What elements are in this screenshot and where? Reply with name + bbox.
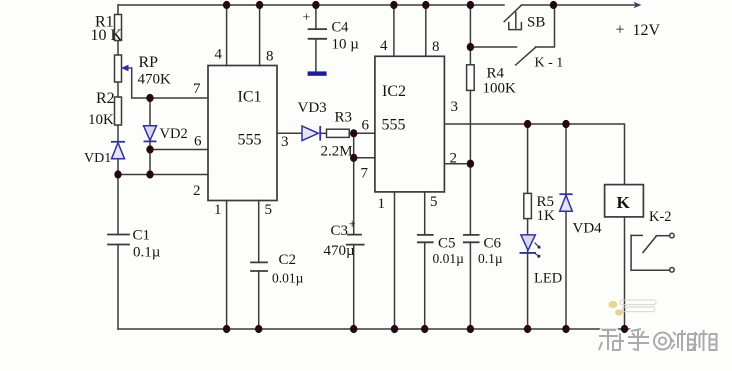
svg-text:100K: 100K — [483, 81, 517, 97]
svg-text:RP: RP — [139, 54, 159, 71]
svg-text:1: 1 — [378, 196, 386, 212]
svg-text:C2: C2 — [279, 252, 297, 268]
svg-text:470µ: 470µ — [324, 243, 356, 259]
svg-text:2: 2 — [450, 151, 458, 167]
svg-text:3: 3 — [451, 99, 459, 115]
svg-text:+: + — [349, 216, 356, 231]
svg-text:2.2M: 2.2M — [321, 144, 353, 160]
svg-text:1K: 1K — [537, 208, 556, 224]
svg-text:10 K: 10 K — [91, 27, 123, 44]
svg-text:470K: 470K — [138, 72, 172, 88]
svg-text:K: K — [617, 193, 631, 212]
svg-text:6: 6 — [194, 134, 202, 150]
svg-text:10K: 10K — [88, 112, 114, 128]
svg-text:K - 1: K - 1 — [535, 56, 564, 71]
svg-text:1: 1 — [214, 202, 222, 218]
svg-text:555: 555 — [238, 132, 262, 149]
svg-text:0.1µ: 0.1µ — [133, 245, 161, 261]
svg-text:VD2: VD2 — [160, 126, 188, 142]
svg-text:4: 4 — [380, 38, 388, 54]
svg-text:C6: C6 — [484, 236, 502, 252]
svg-text:VD1: VD1 — [84, 151, 111, 166]
svg-text:K-2: K-2 — [649, 209, 672, 225]
svg-text:7: 7 — [361, 166, 369, 182]
svg-text:VD4: VD4 — [573, 221, 603, 237]
svg-text:3: 3 — [281, 134, 289, 150]
svg-text:C5: C5 — [438, 236, 456, 252]
svg-text:8: 8 — [266, 49, 274, 65]
svg-text:12V: 12V — [633, 22, 661, 39]
svg-text:0.1µ: 0.1µ — [478, 251, 503, 266]
svg-text:10 µ: 10 µ — [332, 37, 360, 53]
svg-text:R3: R3 — [335, 110, 353, 126]
svg-text:8: 8 — [432, 39, 440, 55]
svg-text:7: 7 — [193, 81, 201, 97]
svg-text:+: + — [303, 11, 311, 26]
svg-text:IC1: IC1 — [238, 89, 262, 106]
svg-text:C4: C4 — [332, 20, 350, 36]
svg-text:+: + — [616, 22, 625, 39]
svg-text:4: 4 — [215, 47, 223, 63]
svg-text:0.01µ: 0.01µ — [433, 251, 465, 266]
svg-text:5: 5 — [265, 202, 273, 218]
svg-text:C1: C1 — [133, 228, 151, 244]
svg-text:0.01µ: 0.01µ — [272, 271, 304, 286]
svg-text:6: 6 — [362, 118, 370, 134]
svg-text:C3: C3 — [331, 223, 349, 239]
svg-text:5: 5 — [430, 194, 438, 210]
svg-text:VD3: VD3 — [298, 100, 327, 116]
svg-text:R4: R4 — [487, 66, 505, 82]
svg-text:2: 2 — [193, 183, 201, 199]
svg-text:555: 555 — [382, 117, 406, 134]
svg-text:LED: LED — [534, 271, 562, 287]
svg-text:R2: R2 — [96, 90, 115, 107]
svg-text:IC2: IC2 — [382, 83, 406, 100]
svg-text:SB: SB — [527, 15, 545, 31]
